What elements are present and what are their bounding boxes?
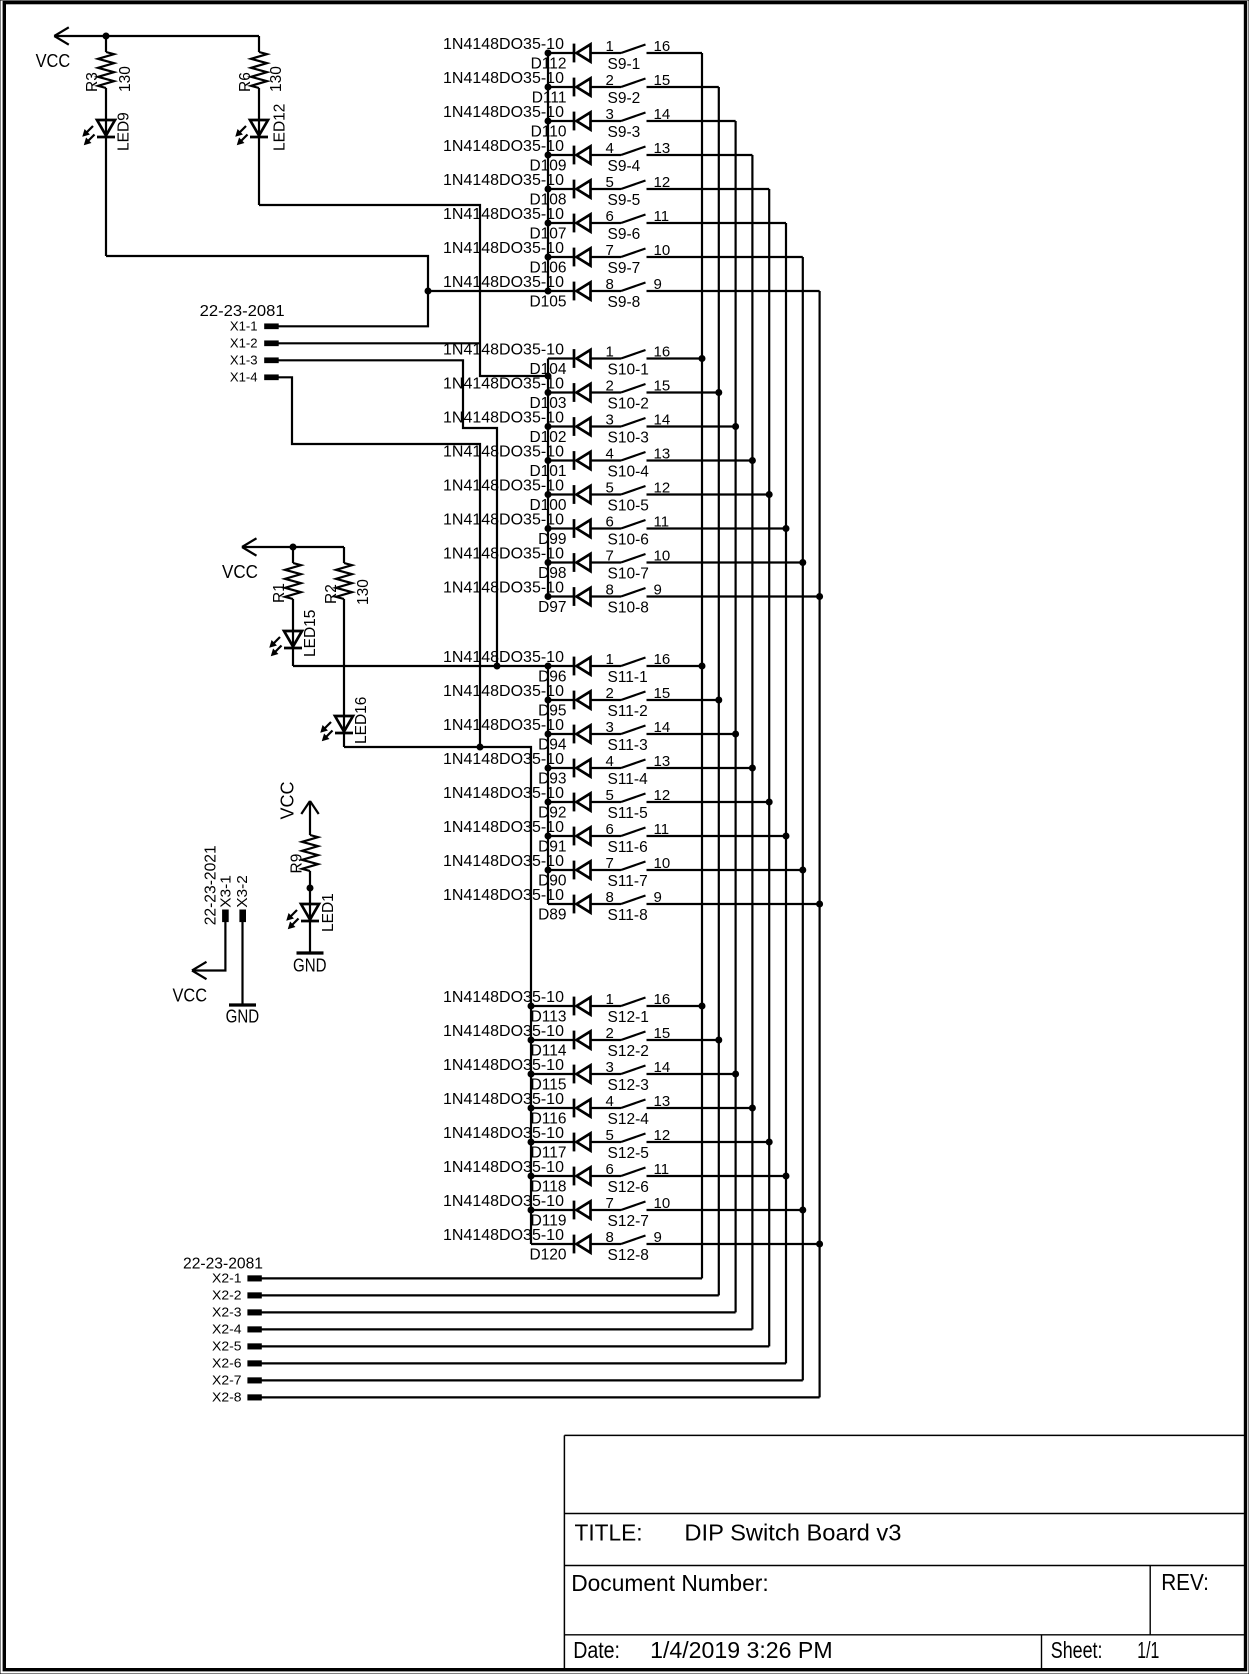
wire diode to switch	[591, 493, 622, 495]
junction node bus column 7 row S10	[799, 559, 806, 566]
wire diode to switch	[591, 595, 622, 597]
junction node S10 bus row 2	[545, 389, 552, 396]
switch S10-3	[608, 418, 649, 447]
svg-text:S10-7: S10-7	[608, 566, 649, 583]
wire diode to switch	[591, 801, 622, 803]
wire switch to bus column 2	[647, 86, 719, 88]
svg-text:7: 7	[606, 1195, 614, 1212]
LED LED1	[287, 893, 337, 932]
wire VCC to R1	[292, 547, 294, 563]
svg-text:X1-4: X1-4	[230, 370, 258, 384]
junction node S12 bus row 1	[528, 1003, 535, 1010]
svg-text:VCC: VCC	[173, 986, 208, 1006]
wire diode to switch	[591, 561, 622, 563]
svg-text:130: 130	[355, 579, 372, 605]
connector pin X1-3	[230, 353, 278, 367]
svg-text:S9-1: S9-1	[608, 56, 641, 73]
switch S10-5	[608, 486, 649, 515]
wire S11 row 6 anode	[548, 835, 574, 837]
diode D96	[538, 657, 590, 686]
LED LED15	[270, 610, 319, 657]
wire LED12 to S10 common	[259, 205, 548, 376]
wire VCC to R3	[105, 36, 107, 52]
LED LED12	[236, 104, 289, 151]
switch S11-3	[608, 726, 648, 755]
bus wire column 1 (S bank 1 to X2-1)	[701, 53, 703, 1278]
junction node bus column 8 row S12	[816, 1241, 823, 1248]
svg-text:4: 4	[606, 140, 614, 157]
svg-text:S10-4: S10-4	[608, 464, 650, 481]
power symbol VCC (X3-1)	[173, 962, 208, 1006]
connector pin X2-8	[212, 1391, 261, 1405]
junction node bus column 4 row S11	[749, 765, 756, 772]
svg-text:X1-1: X1-1	[230, 319, 258, 333]
diode D91	[538, 827, 590, 856]
wire switch to bus column 1	[647, 357, 703, 359]
wire switch to bus column 5	[647, 801, 770, 803]
svg-text:R2: R2	[323, 584, 340, 604]
wire diode to switch	[591, 1107, 622, 1109]
junction node S9 bus row 2	[545, 84, 552, 91]
svg-text:1N4148DO35-10: 1N4148DO35-10	[443, 1159, 564, 1176]
bus wire column 5 (S bank 5 to X2-5)	[768, 189, 770, 1346]
diode D89	[538, 895, 590, 924]
svg-text:D105: D105	[529, 294, 566, 311]
wire switch to bus column 1	[647, 52, 703, 54]
junction node S11 bus row 1	[545, 663, 552, 670]
switch S10-2	[608, 384, 649, 413]
svg-text:S10-8: S10-8	[608, 600, 649, 617]
wire R6 through LED12 down	[258, 88, 260, 205]
wire switch to bus column 8	[647, 903, 820, 905]
svg-text:S10-3: S10-3	[608, 430, 649, 447]
junction node bus column 5 row S12	[766, 1139, 773, 1146]
title block frame	[564, 1435, 1244, 1670]
wire S9 row 2 anode	[548, 86, 574, 88]
diode D102	[529, 417, 590, 446]
svg-text:S10-1: S10-1	[608, 362, 649, 379]
wire X1-3 to S11 common	[278, 360, 497, 666]
svg-text:S12-6: S12-6	[608, 1179, 649, 1196]
switch S9-5	[608, 181, 646, 210]
wire diode to switch	[591, 357, 622, 359]
wire X2-1 to bus column 1	[261, 1277, 702, 1279]
svg-text:130: 130	[268, 66, 285, 92]
wire switch to bus column 5	[647, 188, 770, 190]
wire switch to bus column 6	[647, 835, 787, 837]
wire S10 row 1 anode	[548, 357, 574, 359]
svg-text:S11-6: S11-6	[608, 839, 648, 856]
svg-text:6: 6	[606, 208, 614, 225]
svg-text:1: 1	[606, 38, 614, 55]
diode D101	[529, 451, 590, 480]
wire switch to bus column 7	[647, 1209, 803, 1211]
junction node S11 bus row 6	[545, 833, 552, 840]
svg-text:8: 8	[606, 582, 614, 599]
switch S11-4	[608, 760, 649, 789]
wire X2-6 to bus column 6	[261, 1362, 786, 1364]
svg-text:LED9: LED9	[116, 112, 133, 151]
wire X2-4 to bus column 4	[261, 1328, 752, 1330]
switch S11-7	[608, 862, 648, 891]
junction node bus column 5 row S10	[766, 491, 773, 498]
junction node X1-3/S11	[494, 663, 501, 670]
svg-text:VCC: VCC	[36, 51, 71, 71]
svg-text:1N4148DO35-10: 1N4148DO35-10	[443, 1125, 564, 1142]
wire switch to bus column 4	[647, 1107, 753, 1109]
connector pin X2-2	[212, 1289, 261, 1303]
connector pin X2-7	[212, 1374, 261, 1388]
wire S11 row 5 anode	[548, 801, 574, 803]
junction node bus column 6 row S10	[783, 525, 790, 532]
wire diode to switch	[591, 290, 622, 292]
junction node X1-1/LED9/S9	[425, 288, 432, 295]
junction node S12 bus row 4	[528, 1105, 535, 1112]
svg-text:7: 7	[606, 242, 614, 259]
wire switch to bus column 3	[647, 425, 736, 427]
resistor R9	[289, 835, 319, 874]
svg-text:1N4148DO35-10: 1N4148DO35-10	[443, 1057, 564, 1074]
wire LED9 to X1-1 node	[106, 256, 428, 291]
junction node S11 bus row 2	[545, 697, 552, 704]
svg-text:VCC: VCC	[222, 562, 258, 582]
svg-text:X2-5: X2-5	[212, 1340, 242, 1354]
wire R3 through LED9 down	[105, 88, 107, 256]
wire X2-5 to bus column 5	[261, 1345, 769, 1347]
svg-text:X2-3: X2-3	[212, 1306, 242, 1320]
wire switch to bus column 1	[647, 665, 703, 667]
switch S12-1	[608, 998, 649, 1027]
connector pin X2-1	[212, 1272, 261, 1286]
junction node bus column 5 row S11	[766, 799, 773, 806]
junction node bus column 2 row S12	[715, 1037, 722, 1044]
switch S9-2	[608, 79, 646, 108]
switch S9-4	[608, 147, 646, 176]
wire switch to bus column 8	[647, 1243, 820, 1245]
wire diode to switch	[591, 1141, 622, 1143]
switch S11-5	[608, 794, 648, 823]
switch S9-3	[608, 113, 646, 142]
wire S11 row 1 anode	[548, 665, 574, 667]
diode D112	[531, 44, 591, 73]
wire S10 row 7 anode	[548, 561, 574, 563]
svg-text:5: 5	[606, 1127, 614, 1144]
junction node bus column 4 row S10	[749, 457, 756, 464]
svg-text:S12-2: S12-2	[608, 1043, 649, 1060]
wire S12 row 5 anode	[531, 1141, 574, 1143]
wire switch to bus column 8	[647, 290, 820, 292]
connector pin X1-4	[230, 370, 278, 384]
wire S9 row 8 anode	[548, 290, 574, 292]
svg-text:6: 6	[606, 514, 614, 531]
svg-text:3: 3	[606, 719, 614, 736]
wire switch to bus column 3	[647, 120, 736, 122]
svg-text:22-23-2081: 22-23-2081	[200, 303, 285, 320]
junction node S9 bus row 1	[545, 50, 552, 57]
bus wire column 3 (S bank 3 to X2-3)	[734, 121, 736, 1312]
connector pin X1-2	[230, 336, 278, 350]
wire R1 through LED15 down	[292, 599, 294, 666]
svg-text:S12-1: S12-1	[608, 1009, 649, 1026]
junction node S12 bus row 2	[528, 1037, 535, 1044]
connector pin X3-1	[218, 875, 235, 921]
svg-text:5: 5	[606, 787, 614, 804]
wire diode to switch	[591, 665, 622, 667]
junction node S9 bus row 7	[545, 254, 552, 261]
wire S12 row 4 anode	[531, 1107, 574, 1109]
diode D118	[531, 1167, 591, 1196]
svg-text:2: 2	[606, 378, 614, 395]
svg-text:2: 2	[606, 72, 614, 89]
diode D105	[529, 282, 590, 311]
svg-text:S11-8: S11-8	[608, 907, 648, 924]
resistor R1	[271, 563, 301, 603]
junction node S10 bus row 7	[545, 559, 552, 566]
junction node S9 bus row 8	[545, 288, 552, 295]
wire diode to switch	[591, 835, 622, 837]
wire diode to switch	[591, 154, 622, 156]
svg-text:D97: D97	[538, 599, 566, 616]
wire S9 row 3 anode	[548, 120, 574, 122]
junction node bus column 4 row S12	[749, 1105, 756, 1112]
wire diode to switch	[591, 869, 622, 871]
wire switch to bus column 5	[647, 1141, 770, 1143]
svg-text:3: 3	[606, 1059, 614, 1076]
svg-text:S12-4: S12-4	[608, 1111, 650, 1128]
svg-text:1N4148DO35-10: 1N4148DO35-10	[443, 1193, 564, 1210]
wire S12 row 6 anode	[531, 1175, 574, 1177]
svg-text:6: 6	[606, 1161, 614, 1178]
svg-text:22-23-2081: 22-23-2081	[183, 1256, 263, 1273]
svg-text:X3-1: X3-1	[218, 875, 235, 908]
junction node bus column 2 row S11	[715, 697, 722, 704]
svg-text:3: 3	[606, 106, 614, 123]
ground symbol GND (X3-2)	[226, 1005, 260, 1027]
wire switch to bus column 4	[647, 459, 753, 461]
junction node S9 bus row 4	[545, 152, 552, 159]
switch S12-5	[608, 1134, 649, 1163]
diode D115	[531, 1065, 591, 1094]
svg-text:X3-2: X3-2	[234, 875, 251, 908]
resistor R2 130	[323, 563, 372, 605]
wire LED15 to S11 common	[293, 665, 548, 667]
power symbol VCC (middle)	[222, 538, 258, 582]
switch S12-7	[608, 1202, 649, 1231]
junction node bus column 1 row S10	[699, 355, 706, 362]
wire diode to switch	[591, 903, 622, 905]
power symbol VCC (above R9)	[278, 781, 319, 819]
wire switch to bus column 4	[647, 154, 753, 156]
svg-text:S11-7: S11-7	[608, 873, 648, 890]
svg-text:1N4148DO35-10: 1N4148DO35-10	[443, 1091, 564, 1108]
junction node S9 bus row 5	[545, 186, 552, 193]
junction node S10 bus row 4	[545, 457, 552, 464]
svg-text:S11-2: S11-2	[608, 703, 648, 720]
svg-text:S11-4: S11-4	[608, 771, 649, 788]
wire S10 row 5 anode	[548, 493, 574, 495]
svg-text:S10-6: S10-6	[608, 532, 649, 549]
svg-text:R1: R1	[271, 583, 288, 603]
svg-text:130: 130	[117, 66, 134, 92]
svg-text:S12-5: S12-5	[608, 1145, 649, 1162]
junction node bus column 6 row S11	[783, 833, 790, 840]
svg-text:DIP Switch Board v3: DIP Switch Board v3	[684, 1519, 901, 1545]
wire S10 row 4 anode	[548, 459, 574, 461]
svg-text:8: 8	[606, 276, 614, 293]
svg-text:X2-1: X2-1	[212, 1272, 242, 1286]
svg-text:R9: R9	[289, 854, 306, 874]
svg-text:4: 4	[606, 753, 614, 770]
svg-text:1: 1	[606, 651, 614, 668]
svg-text:S9-6: S9-6	[608, 226, 641, 243]
svg-text:S11-1: S11-1	[608, 669, 648, 686]
svg-text:Document Number:: Document Number:	[571, 1570, 769, 1596]
svg-text:7: 7	[606, 548, 614, 565]
diode D117	[531, 1133, 591, 1162]
wire VCC to R6	[258, 36, 260, 52]
junction node VCC/R3	[103, 33, 110, 40]
svg-text:LED12: LED12	[272, 104, 289, 151]
wire S9 row 4 anode	[548, 154, 574, 156]
wire diode to switch	[591, 527, 622, 529]
connector pin X2-5	[212, 1340, 261, 1354]
svg-text:D89: D89	[538, 907, 566, 924]
wire diode to switch	[591, 1039, 622, 1041]
diode D99	[538, 519, 590, 548]
junction node bus column 3 row S11	[732, 731, 739, 738]
switch S11-2	[608, 692, 648, 721]
svg-text:S9-8: S9-8	[608, 294, 641, 311]
svg-text:REV:: REV:	[1161, 1569, 1209, 1595]
wire S12 row 8 anode	[531, 1243, 574, 1245]
svg-text:S10-2: S10-2	[608, 396, 649, 413]
junction node X1-4/LED16/S12	[477, 744, 484, 751]
switch S9-1	[608, 45, 646, 74]
wire S9 row 6 anode	[548, 222, 574, 224]
diode D104	[529, 349, 590, 378]
wire S11 row 2 anode	[548, 699, 574, 701]
diode D103	[529, 383, 590, 412]
wire diode to switch	[591, 188, 622, 190]
wire switch to bus column 7	[647, 869, 803, 871]
svg-text:1: 1	[606, 344, 614, 361]
diode D111	[532, 78, 591, 107]
junction node S9 bus row 6	[545, 220, 552, 227]
diode D108	[529, 180, 590, 209]
svg-text:5: 5	[606, 480, 614, 497]
junction node bus column 8 row S10	[816, 593, 823, 600]
wire S11 row 4 anode	[548, 767, 574, 769]
svg-text:X2-4: X2-4	[212, 1323, 242, 1337]
svg-text:2: 2	[606, 685, 614, 702]
wire VCC to R2	[343, 547, 345, 563]
svg-text:2: 2	[606, 1025, 614, 1042]
wire diode to switch	[591, 459, 622, 461]
wire X3-2 to GND	[241, 922, 243, 1005]
svg-text:R6: R6	[237, 72, 254, 92]
diode D110	[531, 112, 591, 141]
wire X1-1 to S9 common	[278, 291, 548, 326]
wire switch to bus column 1	[647, 1005, 703, 1007]
junction node S10 bus row 5	[545, 491, 552, 498]
diode D114	[531, 1031, 591, 1060]
junction node S12 bus row 6	[528, 1173, 535, 1180]
diode D116	[531, 1099, 591, 1128]
svg-text:1N4148DO35-10: 1N4148DO35-10	[443, 989, 564, 1006]
svg-text:1N4148DO35-10: 1N4148DO35-10	[443, 887, 564, 904]
wire switch to bus column 2	[647, 699, 719, 701]
wire S9 row 1 anode	[548, 52, 574, 54]
anode bus wire net S11 common	[547, 666, 549, 904]
junction node S12 bus row 5	[528, 1139, 535, 1146]
wire S11 row 8 anode	[548, 903, 574, 905]
svg-text:S9-5: S9-5	[608, 192, 641, 209]
svg-text:S9-3: S9-3	[608, 124, 641, 141]
junction node S10 common feed	[545, 373, 552, 380]
junction node S12 bus row 7	[528, 1207, 535, 1214]
svg-text:D120: D120	[529, 1247, 566, 1264]
diode D97	[538, 587, 590, 616]
svg-text:4: 4	[606, 1093, 614, 1110]
switch S12-8	[608, 1236, 649, 1265]
wire switch to bus column 6	[647, 527, 787, 529]
wire R9 through LED1 to GND	[309, 871, 311, 953]
wire S12 row 7 anode	[531, 1209, 574, 1211]
svg-text:1N4148DO35-10: 1N4148DO35-10	[443, 1227, 564, 1244]
svg-text:4: 4	[606, 446, 614, 463]
switch S10-6	[608, 520, 649, 549]
wire switch to bus column 8	[647, 595, 820, 597]
wire VCC rail	[54, 35, 259, 37]
svg-text:S12-8: S12-8	[608, 1247, 649, 1264]
svg-text:Sheet:: Sheet:	[1051, 1637, 1103, 1663]
wire X2-7 to bus column 7	[261, 1379, 803, 1381]
svg-text:X2-7: X2-7	[212, 1374, 242, 1388]
switch S9-8	[608, 283, 646, 312]
anode bus wire net S9 common	[547, 53, 549, 291]
svg-text:S11-5: S11-5	[608, 805, 648, 822]
diode D98	[538, 553, 590, 582]
wire X2-2 to bus column 2	[261, 1294, 719, 1296]
diode D120	[529, 1235, 590, 1264]
svg-text:X2-2: X2-2	[212, 1289, 242, 1303]
svg-text:S9-4: S9-4	[608, 158, 641, 175]
svg-text:S11-3: S11-3	[608, 737, 648, 754]
svg-text:7: 7	[606, 855, 614, 872]
wire X1-4 to S12 common	[278, 377, 480, 747]
wire VCC rail 2	[242, 546, 344, 548]
svg-text:1/1: 1/1	[1137, 1637, 1159, 1663]
switch S12-6	[608, 1168, 649, 1197]
junction node bus column 7 row S12	[799, 1207, 806, 1214]
wire switch to bus column 5	[647, 493, 770, 495]
switch S9-7	[608, 249, 646, 278]
wire S10 row 2 anode	[548, 391, 574, 393]
anode bus wire net S10 common	[547, 359, 549, 597]
svg-text:X1-3: X1-3	[230, 353, 258, 367]
svg-text:GND: GND	[293, 956, 327, 976]
wire diode to switch	[591, 391, 622, 393]
junction node S11 bus row 3	[545, 731, 552, 738]
junction node S10 bus row 3	[545, 423, 552, 430]
wire diode to switch	[591, 425, 622, 427]
wire diode to switch	[591, 1073, 622, 1075]
svg-text:VCC: VCC	[278, 781, 298, 819]
wire S12 row 3 anode	[531, 1073, 574, 1075]
ground symbol GND (LED1)	[293, 953, 327, 976]
wire S12 row 1 anode	[531, 1005, 574, 1007]
wire R2 through LED16 down	[343, 599, 345, 747]
